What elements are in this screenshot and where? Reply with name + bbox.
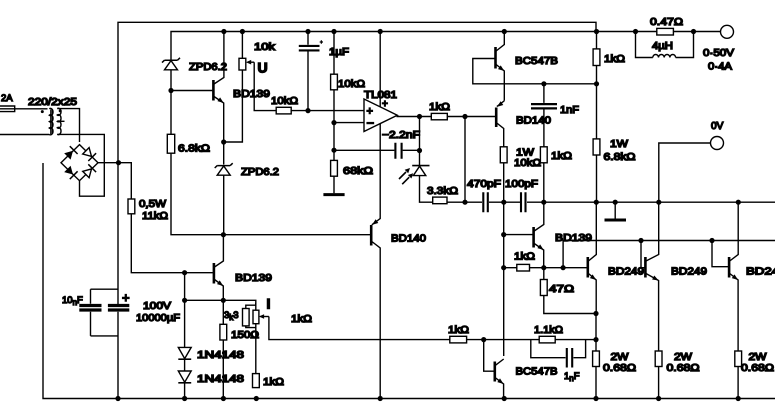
svg-text:68kΩ: 68kΩ <box>343 166 374 177</box>
node: junction x465 y116.5 <box>462 114 467 119</box>
svg-text:2W: 2W <box>749 352 768 363</box>
svg-text:U: U <box>258 60 268 76</box>
transistor BC547B upper <box>473 32 597 101</box>
svg-text:1.1kΩ: 1.1kΩ <box>534 325 563 336</box>
resistor 10k to +input <box>276 107 291 114</box>
node: 0V bus dots <box>462 200 741 205</box>
node: zener chain to BD139 base <box>168 88 173 93</box>
inductor 4uH bypass <box>636 32 694 58</box>
diode 1N4148 #1 <box>178 347 191 359</box>
svg-text:10nF: 10nF <box>62 295 83 307</box>
svg-text:6.8kΩ: 6.8kΩ <box>178 144 211 155</box>
svg-text:10000µF: 10000µF <box>136 313 180 324</box>
svg-text:BD249: BD249 <box>608 267 644 278</box>
node: rail dot 10k divider <box>331 29 336 34</box>
svg-text:4µH: 4µH <box>652 41 673 52</box>
node: base net junction 6.8k column <box>594 81 599 86</box>
svg-text:47Ω: 47Ω <box>549 284 575 295</box>
transformer T1 secondary winding <box>57 108 64 134</box>
svg-text:BD140: BD140 <box>391 234 426 245</box>
node: rail dot output <box>691 29 696 34</box>
transformer T1 core <box>51 110 52 135</box>
resistor 47R <box>540 268 596 314</box>
potentiometer 10k (voltage set) <box>224 32 277 143</box>
svg-text:0.47Ω: 0.47Ω <box>650 17 684 28</box>
resistor 1k (current limit base) <box>450 336 467 343</box>
node: rail dot BD139 collector <box>221 29 226 34</box>
zener ZPD6.2 #2 <box>215 142 233 235</box>
node: feedback/LED junction <box>417 148 422 153</box>
svg-text:BD139: BD139 <box>233 89 270 100</box>
svg-text:ZPD6.2: ZPD6.2 <box>189 62 227 73</box>
svg-text:1W: 1W <box>516 148 535 159</box>
node: rail dot BC547B collector <box>502 29 507 34</box>
resistor 1.1k <box>539 336 555 343</box>
svg-text:1N4148: 1N4148 <box>197 350 245 361</box>
resistor 1k (driver emitter net) <box>504 264 587 271</box>
capacitor 10000uF 100V electrolytic <box>108 306 129 311</box>
svg-text:1kΩ: 1kΩ <box>263 377 285 388</box>
node: junction y300.3 emitter column <box>221 298 226 303</box>
wire: secondary bottom loop to bridge AC bottom <box>57 134 104 196</box>
wire: secondary top to bridge AC top <box>57 109 79 142</box>
wire: output transistor base rail y240.5 <box>563 241 775 268</box>
node: junction base rail riser <box>561 265 566 270</box>
svg-text:1kΩ: 1kΩ <box>291 314 313 325</box>
wire: -input wire <box>334 123 364 151</box>
wire: bottom rail <box>43 163 775 399</box>
svg-text:BD139: BD139 <box>555 233 592 244</box>
svg-text:470pF: 470pF <box>467 179 501 190</box>
wire: output to BD140 base <box>447 116 495 118</box>
svg-text:−2.2nF: −2.2nF <box>382 130 420 141</box>
resistor 1W 6.8k <box>593 84 600 202</box>
svg-text:0,5W: 0,5W <box>139 199 167 210</box>
potentiometer 3k3/150 (current set) <box>243 303 450 374</box>
node: base net junction 1nF <box>541 81 546 86</box>
svg-text:1N4148: 1N4148 <box>197 374 245 385</box>
bridge diode D4 bottom-right <box>83 164 96 177</box>
wire: op-amp V+ supply from rail <box>379 32 381 108</box>
wire: base wire to BD139 driver <box>504 234 533 236</box>
svg-text:11kΩ: 11kΩ <box>142 211 169 222</box>
transistor BD139 lower (current limit) <box>214 235 224 301</box>
svg-text:1kΩ: 1kΩ <box>551 151 573 162</box>
svg-text:1nF: 1nF <box>564 371 580 383</box>
wire: base wire to BD139 upper <box>171 90 212 92</box>
svg-text:2W: 2W <box>611 352 630 363</box>
svg-text:BD140: BD140 <box>516 116 551 127</box>
resistor 10k vertical (from rail) <box>331 32 338 123</box>
node: base rail dot BD249#2 <box>638 238 643 243</box>
wire: +input wire y110.6 <box>291 110 364 112</box>
svg-text:100V: 100V <box>143 301 171 312</box>
resistor 2W 0.68R #2 <box>655 351 662 367</box>
wire: feedback branch x419.5 <box>419 117 421 151</box>
svg-text:BD24: BD24 <box>746 267 775 278</box>
zener ZPD6.2 #1 <box>162 58 180 70</box>
svg-text:BC547B: BC547B <box>515 56 558 67</box>
transistor BD249 #1 <box>588 202 597 313</box>
node: junction x483.7 y339.6 <box>481 337 486 342</box>
node: rail dot inductor branch <box>633 29 638 34</box>
svg-text:6.8kΩ: 6.8kΩ <box>604 152 637 163</box>
svg-text:10kΩ: 10kΩ <box>338 79 366 90</box>
transistor BD139 upper (reference buffer) <box>213 32 224 143</box>
svg-text:BD139: BD139 <box>235 273 272 284</box>
wire: op-amp V- to BD140 driver emitter <box>372 124 380 225</box>
resistor 1W 10k <box>500 147 507 202</box>
node: rail dot x596 <box>594 29 599 34</box>
resistor 68k <box>331 150 338 193</box>
node: junction BD139 base x503.7 <box>501 232 506 237</box>
ground symbol below 68k <box>323 193 344 196</box>
transistor BD249 #2 <box>641 202 659 398</box>
wire: y300.3 link to emitter column and 3k3 pot <box>185 300 256 305</box>
svg-text:3.3kΩ: 3.3kΩ <box>427 186 459 197</box>
svg-text:10kΩ: 10kΩ <box>514 158 542 169</box>
svg-text:3k3: 3k3 <box>224 310 239 322</box>
fuse 2A <box>0 106 15 112</box>
wire: x596 down through 0.68R <box>595 314 597 399</box>
terminal: 0V output <box>711 137 724 150</box>
svg-text:0.68Ω: 0.68Ω <box>667 363 701 374</box>
capacitor 1uF <box>299 32 323 111</box>
transformer polarity dot right <box>59 109 62 112</box>
resistor 2W 0.68R #3 <box>735 351 742 367</box>
node: junction pot bottom / zener2 top <box>221 139 226 144</box>
wire: y234.7 to BD140 driver base <box>223 234 370 236</box>
svg-text:1kΩ: 1kΩ <box>604 54 626 65</box>
capacitor 470pF <box>483 192 488 212</box>
resistor 1k top right <box>593 32 600 84</box>
svg-text:1kΩ: 1kΩ <box>514 252 536 263</box>
transformer polarity dot left <box>41 110 44 113</box>
svg-text:ZPD6.2: ZPD6.2 <box>241 167 279 178</box>
transistor BD249 #3 <box>712 202 738 398</box>
svg-text:10k: 10k <box>254 42 276 53</box>
transistor BC547B lower <box>484 340 504 399</box>
svg-text:0.68Ω: 0.68Ω <box>603 363 637 374</box>
resistor 150R body <box>220 324 227 340</box>
node: base rail dot BD249#3 <box>709 238 714 243</box>
capacitor 100pF <box>521 192 526 212</box>
capacitor 10nF <box>79 289 118 336</box>
svg-text:I: I <box>267 296 271 312</box>
svg-text:1kΩ: 1kΩ <box>448 325 470 336</box>
wire: 0V terminal to bus <box>659 143 711 202</box>
svg-text:0·50V: 0·50V <box>703 48 734 59</box>
svg-text:BD249: BD249 <box>671 267 707 278</box>
node: 11k wire to diode column junction <box>182 270 187 275</box>
node: rail dot op-amp supply <box>378 29 383 34</box>
capacitor 2.2nF feedback <box>395 143 401 159</box>
svg-text:−: − <box>367 116 375 131</box>
bridge diode D3 bottom-left <box>64 166 77 179</box>
svg-text:BC547B: BC547B <box>516 367 558 378</box>
svg-text:+: + <box>122 290 130 305</box>
wire: left border positive column x118 (bridge + to caps to bottom rail) <box>117 163 119 399</box>
resistor 1k op-amp output <box>431 113 447 119</box>
transistor BD140 driver (middle) <box>371 219 380 398</box>
wire: y339.6 from 1k to 1.1k <box>467 339 596 341</box>
op-amp TL081 <box>364 99 397 132</box>
bridge diode D1 top-left <box>64 146 77 159</box>
resistor 0.5W 11k <box>128 199 135 214</box>
wire: internal 0V bus y202 <box>420 151 775 203</box>
resistor 6.8k <box>167 134 174 153</box>
bridge diode D2 top-right <box>83 148 96 161</box>
svg-text:1kΩ: 1kΩ <box>429 102 451 113</box>
node: junction 47R top <box>541 265 546 270</box>
svg-text:10kΩ: 10kΩ <box>271 96 299 107</box>
transistor BD140 upper (pre-driver) <box>496 101 504 147</box>
svg-text:1µF: 1µF <box>329 47 349 58</box>
transformer T1 primary winding <box>0 108 53 134</box>
terminal: + output <box>721 25 734 38</box>
resistor 0.47R <box>657 28 674 35</box>
svg-text:2W: 2W <box>674 352 693 363</box>
resistor 2W 0.68R #1 <box>593 351 600 367</box>
node: 1uF to +input junction <box>305 108 310 113</box>
wire: inner top rail y31.5 <box>171 32 721 61</box>
svg-text:100pF: 100pF <box>505 179 538 190</box>
bridge rectifier diamond <box>61 145 98 181</box>
wire: op-amp output y116.5 <box>397 116 432 118</box>
node: feedback junction at 68k top <box>331 148 336 153</box>
svg-text:0V: 0V <box>711 121 724 132</box>
node: bridge + output junction on x118 <box>116 160 121 165</box>
svg-text:0·4A: 0·4A <box>708 62 732 73</box>
resistor 3.3k <box>433 197 447 204</box>
wire: bridge minus output to 11k resistor chain and BD139 base <box>98 163 213 273</box>
resistor 1k below current pot <box>253 374 260 388</box>
ground symbol on 0V bus <box>605 202 627 220</box>
node: junction y339.6 x596 <box>593 337 598 342</box>
node: junction y234.7 <box>221 232 226 237</box>
resistor 1k (BD140 collector load) <box>540 147 547 202</box>
svg-text:2A: 2A <box>1 93 13 104</box>
wire: x465 down to 0V bus <box>464 117 466 203</box>
capacitor 1nF lower (parallel 1.1k) <box>531 340 586 368</box>
node: junction 1k x503.7 <box>501 265 506 270</box>
diode 1N4148 #2 <box>178 371 191 383</box>
svg-text:0.68Ω: 0.68Ω <box>741 363 775 374</box>
svg-text:220/2x25: 220/2x25 <box>28 97 77 108</box>
wire: diode column x184.6 <box>184 273 186 399</box>
node: junction y313.5 <box>593 311 598 316</box>
transistor BD139 driver <box>534 202 544 268</box>
wire: feedback wire y150.3 to 2.2nF <box>334 149 420 151</box>
node: rail dot 1uF <box>305 29 310 34</box>
node: bottom rail dots <box>115 396 740 401</box>
wire: outer top rail from left border to x596 <box>118 22 596 163</box>
node: junction x184.6 y300.3 <box>182 298 187 303</box>
wire: emitter column x223.3 down through 150R <box>222 300 224 398</box>
capacitor 1nF upper <box>531 84 557 147</box>
node: rail dot 10k pot top <box>240 29 245 34</box>
wire: x503.7 column from 0V bus to BC547B collector <box>503 202 505 356</box>
svg-text:1W: 1W <box>610 139 629 150</box>
svg-text:1nF: 1nF <box>560 105 579 116</box>
wire: zener chain column x171 <box>171 70 223 235</box>
node: output junction x419.5 <box>417 114 422 119</box>
node: -input junction <box>331 120 336 125</box>
LED reference diode <box>399 166 430 185</box>
